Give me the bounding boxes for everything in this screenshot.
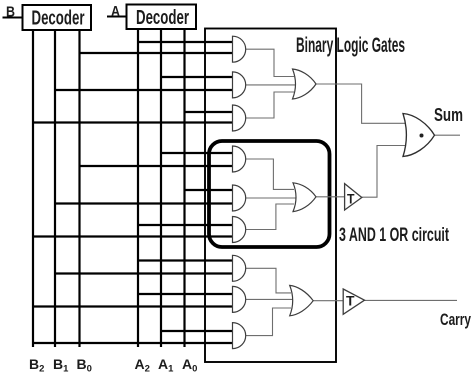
svg-text:Decoder: Decoder [136,7,189,29]
svg-text:A: A [111,4,120,20]
svg-text:Sum: Sum [434,105,463,125]
svg-text:T: T [347,191,355,207]
svg-text:3 AND 1 OR circuit: 3 AND 1 OR circuit [339,225,449,246]
svg-text:T: T [346,293,355,309]
svg-text:Decoder: Decoder [32,8,85,30]
svg-text:B: B [6,5,15,21]
svg-text:Carry: Carry [440,310,471,329]
svg-text:Binary Logic Gates: Binary Logic Gates [296,34,405,57]
